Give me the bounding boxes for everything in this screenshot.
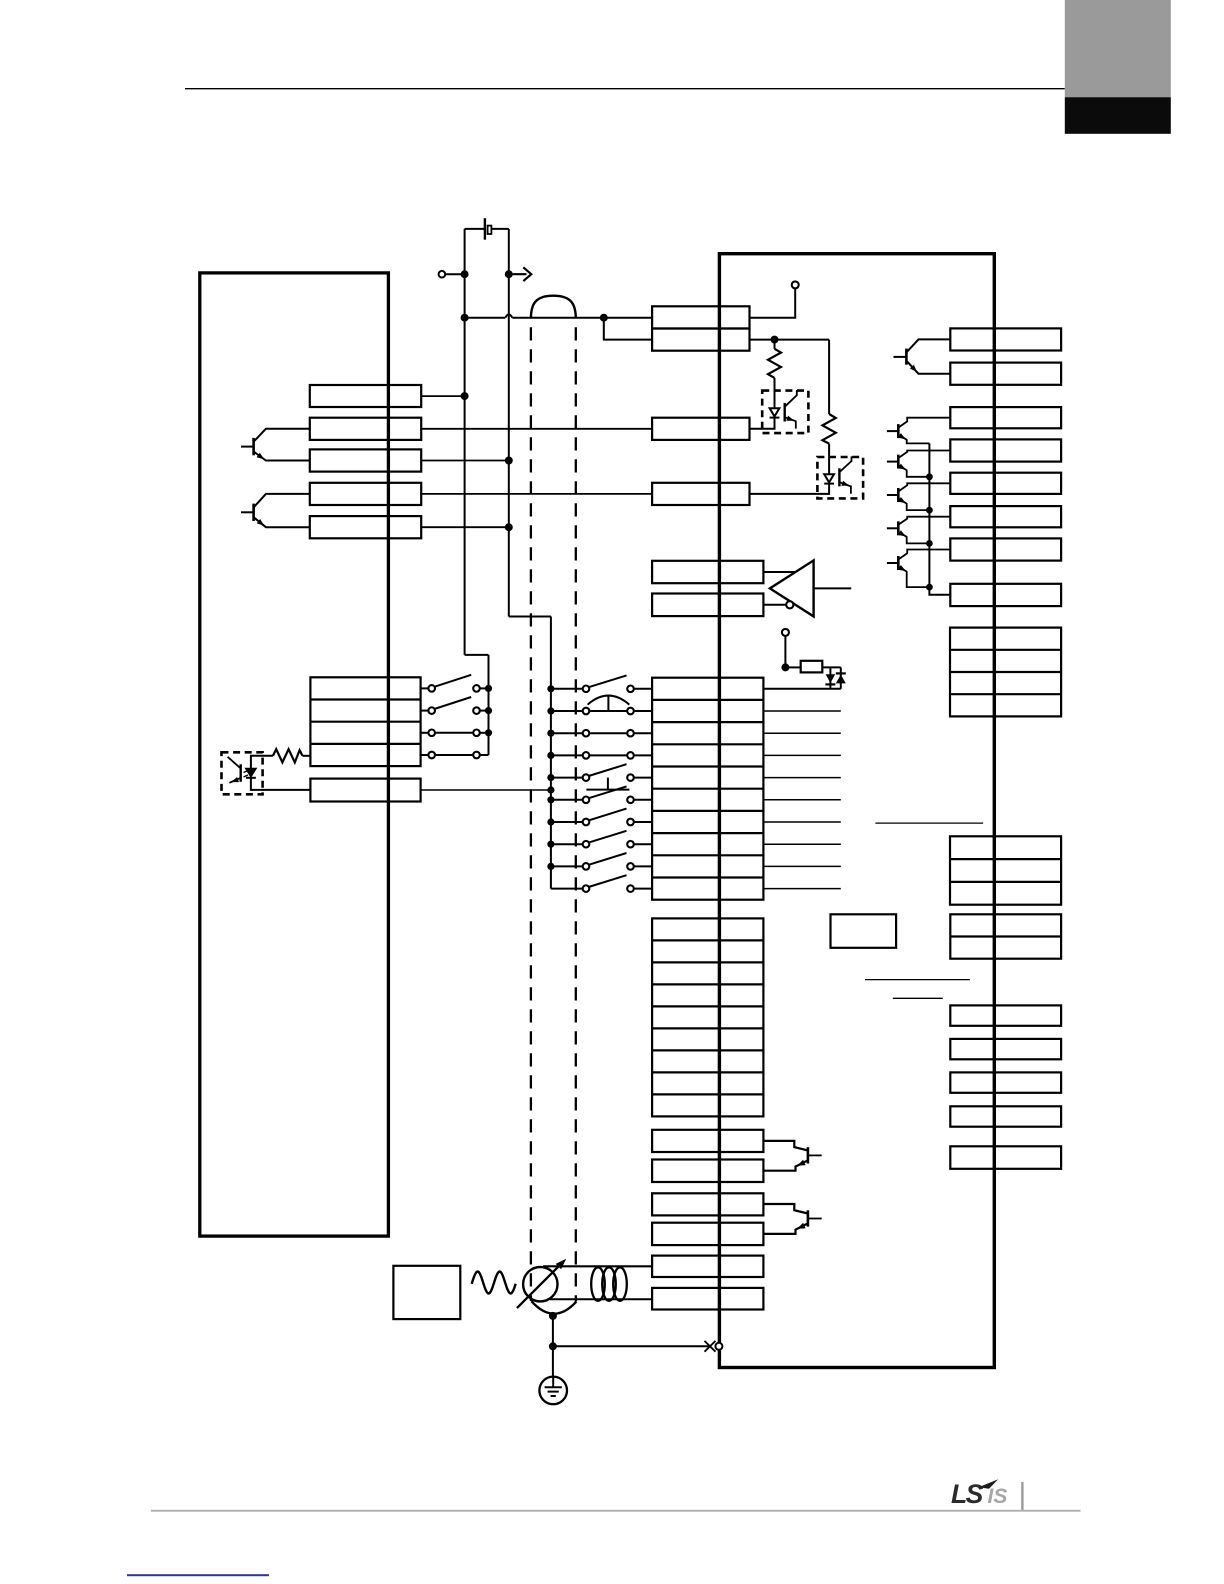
protective earth circle [539, 1377, 567, 1405]
terminal box R8 [950, 584, 1061, 606]
drive control board enclosure [719, 254, 994, 1368]
junction emitter bus [926, 473, 933, 480]
terminal box R7 [950, 538, 1061, 560]
wire P24 to node [445, 273, 464, 275]
terminal box L1e [310, 516, 421, 538]
wire P5 throw to terminal [634, 777, 652, 779]
terminal box L1d [310, 483, 421, 505]
arrow to external supply head [523, 267, 531, 281]
transistor Q5 bar [897, 455, 900, 469]
junction P4 on center bus [547, 752, 554, 759]
center switch bus [550, 617, 552, 889]
terminal box B1 [652, 418, 749, 440]
terminal box R16 [950, 1146, 1061, 1169]
diode D2 lead [840, 667, 842, 688]
wire RB to opto PC2 LED [828, 444, 830, 474]
wire VR to resistor RD [785, 666, 800, 668]
junction P9 on center bus [547, 863, 554, 870]
wire VR stub [784, 636, 786, 668]
analog wire V1+ top [543, 1265, 652, 1267]
footer link underline [127, 1574, 269, 1576]
switch S1 blade (open) [434, 675, 471, 687]
header rule [185, 88, 1065, 90]
switch P7 throw circle [627, 819, 634, 826]
node CM branch [771, 336, 779, 344]
option box [831, 914, 897, 948]
transistor Q9 base [808, 1154, 822, 1156]
terminal P24 open circle [439, 271, 446, 278]
terminal box R3 [950, 407, 1061, 428]
comparator U1 inverting bubble [786, 601, 793, 608]
internal stub P1 [763, 688, 840, 690]
terminal box R15 [950, 1106, 1061, 1126]
wire CM branch right [775, 339, 830, 341]
switch P1 throw circle [627, 686, 634, 693]
switch P7 pole circle [583, 819, 590, 826]
svg-text:LS: LS [951, 1479, 984, 1509]
transistor Q6 collector [898, 483, 950, 491]
switch P3 pole circle [583, 730, 590, 737]
node shield drain [549, 1312, 557, 1320]
wire P8 throw to terminal [634, 843, 652, 845]
variable attenuator arrow shaft [517, 1264, 562, 1309]
opto PC3 LED triangle [246, 769, 256, 777]
header black tab [1065, 97, 1171, 134]
terminal block F1 (9 rows) [652, 918, 763, 1116]
switch P6 throw circle [627, 797, 634, 804]
wire CM to node [750, 339, 775, 341]
resistor RD box [801, 661, 823, 673]
protective earth stub [552, 1378, 554, 1388]
wire S3 throw to bus [480, 732, 489, 734]
wire L2 row1 to switch pole [421, 687, 429, 689]
terminal box F3a [652, 1193, 763, 1215]
arrow to external supply shaft [509, 273, 527, 275]
wire RC to L2 row4 [303, 755, 311, 757]
wire P3 throw to terminal [634, 732, 652, 734]
switch P5 aux bar [586, 789, 629, 791]
terminal box R12 [950, 1005, 1061, 1025]
terminal box CM upper [652, 329, 749, 351]
wire bus to P1 pole [551, 688, 583, 690]
junction P2 on center bus [547, 707, 554, 714]
opto PC3 emitter arrow [231, 777, 239, 782]
internal stub P2 [763, 710, 840, 712]
transistor Q1 emitter arrow [257, 453, 265, 460]
terminal box L1c [310, 449, 421, 471]
transistor Q1 bar [252, 438, 255, 455]
transistor Q6 base [887, 494, 898, 496]
opto PC2 LED lead [750, 484, 830, 494]
switch S3 throw circle [473, 730, 480, 737]
LSIS logo LS text [951, 1479, 984, 1509]
wire bus corner to P10 pole [551, 888, 583, 890]
opto PC3 LED lead to L2s [251, 778, 311, 790]
transistor Q2 emitter arrow [257, 519, 265, 526]
opto PC2 LED triangle [824, 474, 834, 482]
transistor Q3 bar [905, 349, 908, 365]
node L1a on V1 [461, 392, 469, 400]
battery B1 right lead wire [491, 228, 508, 230]
node L1c on V2 [505, 457, 513, 465]
opto PC3 light arrow 1 [244, 771, 249, 773]
wire S4 throw to bus [480, 754, 489, 756]
node 24V split [600, 314, 608, 322]
wire S1 throw to bus [480, 687, 489, 689]
external potentiometer box [393, 1266, 460, 1319]
transistor Q8 base [887, 562, 898, 564]
wire bus to P3 pole [551, 732, 583, 734]
protective earth bar 1 [545, 1386, 562, 1388]
chassis twist mark [705, 1341, 716, 1352]
junction emitter bus [926, 584, 933, 591]
wire L1c to V2 [421, 460, 509, 462]
transistor Q3 base [894, 356, 907, 358]
switch P10 blade (open) [589, 875, 627, 887]
terminal box R4 [950, 439, 1061, 461]
transistor Q3 emitter arrow [910, 365, 917, 372]
transistor Q2 bar [252, 504, 255, 521]
wire bus to P8 pole [551, 843, 583, 845]
vertical wire V1 [464, 229, 466, 655]
opto PC3 phototransistor bar [239, 764, 241, 782]
switch P8 throw circle [627, 841, 634, 848]
switch P10 throw circle [627, 885, 634, 892]
junction P6 on center bus [547, 796, 554, 803]
switch S4 throw circle [473, 752, 480, 759]
transistor Q10 emitter [763, 1223, 808, 1234]
switch P4 blade (closed) [589, 754, 627, 756]
wire P2 throw to terminal [634, 710, 652, 712]
terminal box 24 [652, 306, 749, 328]
wire L2s to center bus (long) [421, 789, 551, 791]
opto PC1 emitter [785, 417, 796, 428]
switch P9 throw circle [627, 863, 634, 870]
transistor Q4 collector [898, 418, 950, 428]
terminal box E1 [652, 561, 763, 583]
shield dome [531, 296, 576, 319]
opto PC1 LED cathode bar [770, 417, 780, 419]
variable attenuator arrow head [556, 1259, 567, 1270]
internal stub P3 [763, 732, 840, 734]
terminal block R9 (4 rows) [950, 628, 1061, 717]
wire L1d to C1 (long) [421, 493, 652, 495]
transistor Q8 bar [897, 556, 900, 570]
terminal box R5 [950, 473, 1061, 494]
node on V1 at 24V wire [461, 314, 469, 322]
transistor Q2 collector [254, 494, 310, 508]
wire down to resistor RB [828, 340, 830, 414]
wire bus to P2 pole [551, 710, 583, 712]
terminal VR open circle [782, 629, 789, 636]
wire RA to opto PC1 LED [774, 378, 776, 408]
switch S2 pole circle [428, 707, 435, 714]
transistor Q10 emitter arrow [797, 1223, 806, 1229]
transistor Q6 bar [897, 488, 900, 502]
node ground branch [549, 1342, 557, 1350]
terminal block D (10 rows) [652, 678, 763, 900]
wire L2 row2 to switch pole [421, 710, 429, 712]
junction emitter bus [926, 540, 933, 547]
terminal box L1a [310, 385, 421, 407]
switch P5 pole circle [583, 774, 590, 781]
wire S2 throw to bus [480, 710, 489, 712]
wire L1b to B1 (long) [421, 428, 652, 430]
node L1e on V2 [505, 523, 513, 531]
optocoupler PC3 dashed box [222, 752, 263, 794]
switch P4 throw circle [627, 752, 634, 759]
switch S2 throw circle [473, 707, 480, 714]
wire branch to CM terminal [604, 318, 652, 340]
resistor RA [768, 349, 781, 378]
wire V2 jog [509, 616, 551, 618]
switch P6 blade (open) [589, 786, 627, 798]
shield drain wire [552, 1316, 554, 1376]
terminal box L2s [310, 779, 420, 802]
switch P1 pole circle [583, 686, 590, 693]
label rule a [875, 822, 983, 824]
resistor RC [273, 749, 303, 762]
transistor Q6 emitter [898, 499, 929, 511]
switch P2 throw circle [627, 708, 634, 715]
terminal block R11 (2 rows) [950, 914, 1061, 958]
wire bus to P7 pole [551, 821, 583, 823]
terminal block R10 (3 rows) [950, 836, 1061, 904]
shield dashed line right [575, 327, 577, 1301]
switch P6 pole circle [583, 797, 590, 804]
terminal box F2b [652, 1160, 763, 1183]
switch P5 aux tick [607, 778, 609, 790]
wire hop over V2 [505, 314, 512, 317]
wire to transistor Q10 collector [763, 1204, 808, 1214]
wire L1a to V1 [421, 395, 464, 397]
switch P8 blade (open) [589, 831, 627, 843]
transistor Q1 emitter [254, 452, 310, 461]
comparator U1 triangle [770, 560, 814, 616]
node on V1 at P24 [461, 270, 469, 278]
node VR [781, 663, 789, 671]
transistor Q6 emitter arrow [898, 497, 906, 503]
battery B1 short plate [488, 226, 492, 234]
wire bus to P6 pole [551, 799, 583, 801]
opto PC2 emitter arrow [841, 481, 849, 486]
transistor Q4 base [887, 430, 898, 432]
terminal box F3b [652, 1223, 763, 1245]
opto PC1 LED triangle [770, 408, 780, 416]
svg-text:IS: IS [988, 1485, 1008, 1508]
wire P7 throw to terminal [634, 821, 652, 823]
terminal box F2a [652, 1130, 763, 1152]
switch S4 blade (closed) [435, 754, 473, 756]
battery B1 left lead wire [465, 228, 485, 230]
wire RC to opto PC3 LED [251, 756, 273, 768]
opto PC2 phototransistor bar [838, 468, 840, 486]
node arrow branch [505, 270, 513, 278]
left switch bus [488, 655, 490, 755]
transistor Q8 emitter [898, 567, 929, 588]
junction P8 on center bus [547, 841, 554, 848]
transistor Q7 emitter arrow [898, 530, 906, 536]
transistor Q5 emitter arrow [898, 464, 906, 470]
emitter bus [929, 443, 950, 594]
transistor Q5 collector [898, 451, 950, 459]
shield bowl [531, 1301, 576, 1314]
wire L2 row3 to switch pole [421, 732, 429, 734]
transistor Q5 emitter [898, 465, 929, 477]
junction emitter bus [926, 507, 933, 514]
resistor RB [822, 414, 835, 444]
wire bus to P5 pole [551, 777, 583, 779]
internal stub P6 [763, 799, 840, 801]
transistor Q4 emitter arrow [898, 433, 906, 439]
opto PC2 LED cathode bar [824, 483, 834, 485]
footer divider bar [1021, 1482, 1023, 1510]
wire E1 to comparator [763, 571, 796, 573]
vertical wire V2 [508, 229, 510, 617]
internal stub P4 [763, 754, 840, 756]
transistor Q8 collector [898, 550, 950, 560]
transistor Q7 base [887, 527, 898, 529]
internal stub P8 [763, 843, 840, 845]
switch P2 jumper tick [607, 696, 609, 711]
wire bus to P9 pole [551, 865, 583, 867]
junction S3 on left bus [485, 729, 492, 736]
LSIS logo swoosh [979, 1479, 999, 1489]
switch P8 pole circle [583, 841, 590, 848]
optocoupler PC1 dashed box [762, 391, 808, 434]
chassis terminal circle [715, 1343, 722, 1350]
terminal box R1 [950, 328, 1061, 350]
switch S1 pole circle [428, 685, 435, 692]
opto PC2 emitter [839, 482, 851, 494]
opto PC3 collector [228, 757, 241, 769]
opto PC2 collector [839, 456, 851, 472]
switch P9 pole circle [583, 863, 590, 870]
terminal box R6 [950, 506, 1061, 527]
transistor Q9 emitter arrow [797, 1160, 806, 1166]
battery B1 long plate [484, 218, 486, 240]
switch S4 pole circle [428, 752, 435, 759]
switch P2 pole circle [583, 708, 590, 715]
footer rule [151, 1510, 1081, 1512]
diode D1 triangle [826, 674, 836, 683]
wire to transistor Q9 collector [763, 1141, 808, 1151]
opto PC3 light arrow 2 [244, 775, 249, 777]
analog signal sine wave [472, 1272, 516, 1294]
transistor Q7 emitter [898, 532, 929, 544]
terminal box C1 [652, 483, 749, 505]
wire L1e to V2 [421, 526, 509, 528]
wire P1 throw to terminal [634, 688, 652, 690]
main 24V wire left segment [465, 317, 506, 319]
diode D1 cathode bar [825, 683, 835, 685]
switch P2 jumper dome [588, 696, 630, 705]
external controller enclosure [200, 273, 389, 1236]
label rule b [865, 979, 970, 981]
switch S3 blade (closed) [435, 732, 473, 734]
protective earth bar 2 [548, 1391, 559, 1393]
diode D1 lead [829, 667, 831, 688]
opto PC1 LED lead [750, 418, 775, 429]
transistor Q3 emitter [906, 361, 950, 374]
transistor Q8 emitter arrow [898, 565, 906, 571]
twisted pair coil loop 2 [602, 1267, 616, 1301]
internal stub P5 [763, 777, 840, 779]
opto PC1 collector [785, 390, 797, 407]
switch P10 pole circle [583, 885, 590, 892]
transistor Q3 collector [906, 339, 950, 352]
transistor Q9 emitter [763, 1160, 808, 1170]
internal stub P10 [763, 888, 840, 890]
wire bus to P4 pole [551, 754, 583, 756]
variable attenuator circle [523, 1267, 557, 1301]
transistor Q10 bar [807, 1210, 810, 1226]
switch P4 pole circle [583, 752, 590, 759]
wire P10 throw to terminal [634, 888, 652, 890]
switch P2 blade (closed) [589, 710, 627, 712]
junction P5 on center bus [547, 774, 554, 781]
opto PC1 phototransistor bar [784, 403, 786, 422]
diode D2 cathode bar [836, 672, 846, 674]
wire node to resistor RA [774, 340, 776, 349]
transistor Q2 base [241, 511, 254, 513]
terminal block L2 (4 rows) [310, 677, 420, 766]
junction S2 on left bus [485, 707, 492, 714]
internal stub P9 [763, 865, 840, 867]
switch S2 blade (open) [434, 697, 471, 709]
transistor Q4 emitter [898, 435, 929, 444]
terminal box R14 [950, 1072, 1061, 1092]
internal stub P7 [763, 821, 840, 823]
opto PC3 emitter [229, 778, 240, 783]
wire RD to diodes [822, 666, 841, 668]
terminal box E2 [652, 594, 763, 617]
twisted pair coil loop 3 [613, 1267, 627, 1301]
opto PC3 LED cathode bar [246, 777, 256, 779]
transistor Q1 base [241, 446, 254, 448]
analog wire 5G bottom [550, 1298, 652, 1300]
wire to chassis terminal [553, 1345, 710, 1347]
terminal box F4a [652, 1256, 763, 1277]
junction P3 on center bus [547, 730, 554, 737]
transistor Q7 bar [897, 521, 900, 535]
protective earth bar 3 [551, 1395, 556, 1397]
switch P1 blade (open) [589, 675, 627, 687]
transistor Q10 base [808, 1218, 822, 1220]
transistor Q2 emitter [254, 517, 310, 527]
optocoupler PC2 dashed box [817, 457, 863, 498]
transistor Q1 collector [254, 429, 310, 442]
wire P6 throw to terminal [634, 799, 652, 801]
switch P5 throw circle [627, 774, 634, 781]
switch S1 throw circle [473, 685, 480, 692]
switch P5 blade (open) [589, 764, 627, 776]
LSIS logo IS text [988, 1485, 1008, 1508]
diode D2 triangle [836, 675, 846, 684]
wire P9 throw to terminal [634, 865, 652, 867]
transistor Q5 base [887, 461, 898, 463]
transistor Q9 bar [807, 1147, 810, 1163]
terminal box F4b [652, 1288, 763, 1310]
junction P7 on center bus [547, 818, 554, 825]
shield dashed line left [530, 327, 532, 1301]
junction L2s on center bus [547, 786, 554, 793]
wire E2 to bubble [763, 604, 786, 606]
twisted pair coil loop 1 [591, 1267, 605, 1301]
switch S3 pole circle [428, 730, 435, 737]
switch P3 blade (closed) [589, 732, 627, 734]
label rule c [893, 997, 943, 999]
